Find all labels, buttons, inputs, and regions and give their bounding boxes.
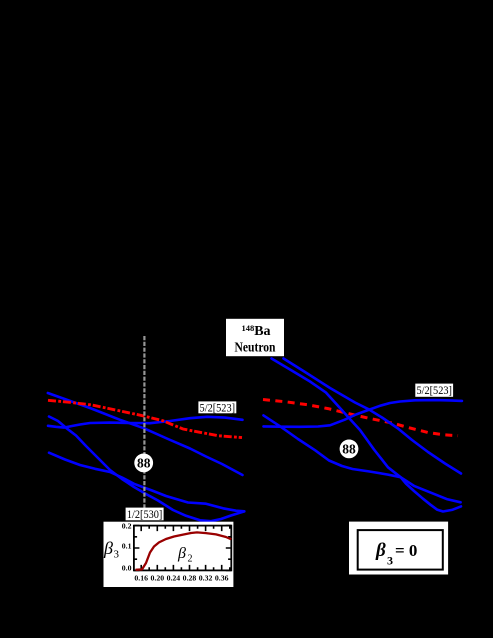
svg-text:5/2[523]: 5/2[523] <box>416 385 452 397</box>
svg-text:β: β <box>103 538 113 558</box>
svg-text:0.24: 0.24 <box>167 573 181 582</box>
svg-text:Neutron: Neutron <box>235 339 277 354</box>
svg-text:3: 3 <box>387 554 393 568</box>
svg-text:0.2: 0.2 <box>122 522 132 531</box>
svg-text:1/2[530]: 1/2[530] <box>127 509 163 521</box>
svg-text:88: 88 <box>342 441 356 456</box>
svg-text:3: 3 <box>114 549 120 561</box>
svg-text:β: β <box>375 540 386 561</box>
svg-text:β: β <box>177 545 186 562</box>
svg-text:0.0: 0.0 <box>122 564 132 573</box>
svg-text:88: 88 <box>137 455 151 470</box>
svg-text:= 0: = 0 <box>395 541 417 560</box>
svg-text:0.16: 0.16 <box>134 573 148 582</box>
svg-text:0.36: 0.36 <box>215 573 229 582</box>
svg-text:0.28: 0.28 <box>183 573 197 582</box>
svg-text:0.32: 0.32 <box>199 573 213 582</box>
svg-text:5/2[523]: 5/2[523] <box>200 402 236 414</box>
svg-text:2: 2 <box>188 554 193 565</box>
svg-text:0.20: 0.20 <box>150 573 164 582</box>
svg-text:0.1: 0.1 <box>122 542 132 551</box>
